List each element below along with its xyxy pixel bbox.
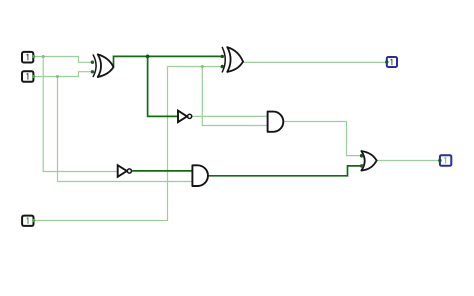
wire branch B down to AND2 lower input [58,77,193,182]
input pin B [22,71,35,82]
wire NOT2 output to AND2 upper input (dark) [132,170,192,172]
OR input port dots [360,154,364,158]
wire XOR2 output to pin Sum [243,61,387,63]
wire net B: pin B to XOR1 lower input [33,72,92,77]
OR gate (carry out) [361,151,376,170]
wire XOR1 output to XOR2 upper input (dark, value 0) [114,56,223,67]
input pin A [22,52,35,63]
wire net Cin: pin C up to XOR2 lower input [34,67,223,221]
junction on net A [42,55,45,58]
wire branch A down to NOT2 input [43,57,118,172]
output pin Sum [385,57,397,67]
XOR1 input port dots [91,61,94,64]
XOR1 gate A xor B [93,54,113,77]
wire AND2 output to OR lower input (dark) [208,166,362,176]
junction on Cin net [201,65,204,68]
AND1 gate [268,112,284,132]
input pin C (carry in) [22,216,35,226]
wire AND1 output to OR upper input [283,122,361,156]
XOR2 gate (sum) [222,47,243,72]
wire NOT1 output to AND1 upper input [192,115,267,117]
XOR2 input port dots [221,55,224,58]
wire Cin branch down to AND1 lower input [202,67,267,126]
NOT1 gate [178,111,192,123]
wire net A: pin A to XOR1 upper input [33,57,92,63]
junction on net B [56,75,59,78]
AND2 gate [192,165,208,186]
wire OR output to pin Cout [377,160,440,162]
output pin Cout [438,155,451,166]
wire dark branch down to NOT1 input [148,56,178,116]
junction on XOR1 output net [146,55,150,59]
NOT2 gate [118,165,132,177]
